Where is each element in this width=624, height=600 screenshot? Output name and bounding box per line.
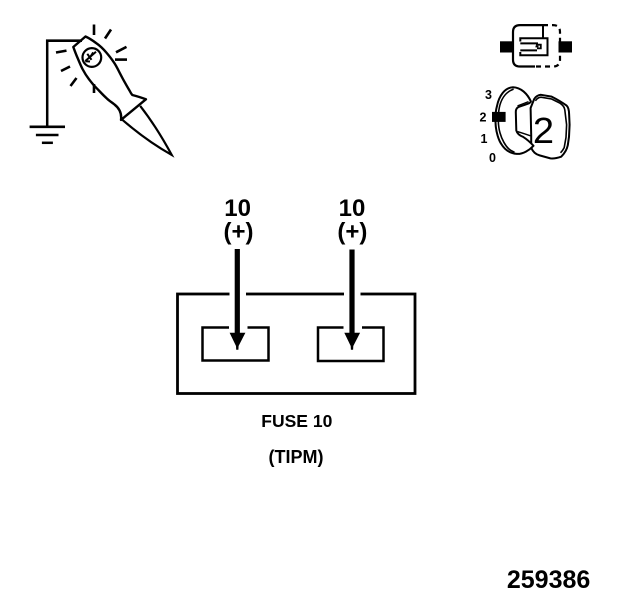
fuse body with label 2 (531, 95, 570, 159)
node label 10 (+) right (337, 195, 367, 246)
test lamp (probe body) (73, 37, 171, 155)
gaps where arrows cross edges (229, 292, 362, 332)
feed arrow left (230, 249, 246, 350)
terminal left (500, 41, 513, 52)
node label 10 (+) left (224, 195, 254, 246)
fuse block outline (TIPM) (178, 294, 416, 394)
lamp bulb (83, 48, 102, 67)
fuse holder rim highlight (498, 89, 514, 152)
svg-text:(+): (+) (337, 219, 367, 246)
figure number 259386 (507, 566, 590, 594)
fuse icon F1 (top right) (500, 25, 572, 66)
svg-text:(+): (+) (224, 219, 254, 246)
svg-text:2: 2 (533, 111, 554, 151)
fuse cavity right (318, 328, 384, 362)
feed arrow right (344, 250, 360, 350)
fuse cavity left (203, 328, 269, 361)
label (TIPM) (269, 447, 324, 467)
light rays (56, 25, 127, 94)
fuse outline dashed part (535, 25, 560, 66)
svg-text:0: 0 (489, 151, 496, 165)
wire (ground lead vertical) (46, 40, 49, 127)
terminal right (559, 41, 573, 52)
fuse element stem (542, 25, 544, 38)
fuse element bars (520, 42, 538, 44)
probe needle (121, 106, 172, 155)
fuse element arrow (536, 45, 541, 49)
svg-text:2: 2 (480, 110, 487, 124)
svg-text:(TIPM): (TIPM) (269, 447, 324, 467)
fuse element window (520, 38, 547, 55)
fuse cavity scale digits 3 2 1 0 (480, 88, 497, 165)
svg-text:3: 3 (485, 88, 492, 102)
svg-text:259386: 259386 (507, 566, 590, 594)
svg-text:FUSE 10: FUSE 10 (261, 411, 332, 431)
svg-text:1: 1 (481, 132, 488, 146)
cavity marker (black square at 2) (492, 112, 506, 122)
fuse body bevel lines (535, 97, 566, 153)
label FUSE 10 (261, 411, 332, 431)
fuse holder (C shape) (495, 87, 533, 154)
fuse outline solid part (513, 25, 543, 66)
wire (ground lead horizontal) (46, 39, 82, 42)
holder arm edge lines (518, 102, 529, 106)
ground (30, 127, 65, 143)
